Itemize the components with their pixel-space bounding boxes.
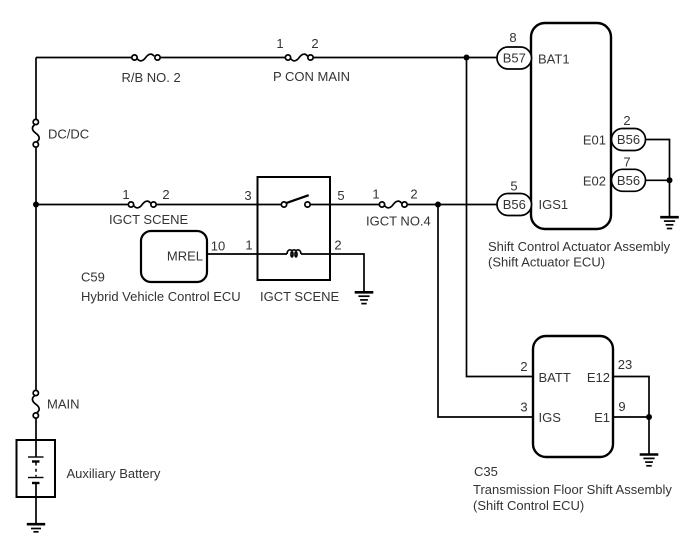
svg-text:Transmission Floor Shift Assem: Transmission Floor Shift Assembly (473, 482, 672, 497)
svg-text:2: 2 (520, 359, 527, 374)
svg-text:1: 1 (122, 187, 129, 202)
svg-text:1: 1 (372, 187, 379, 202)
svg-text:DC/DC: DC/DC (48, 127, 89, 142)
svg-text:5: 5 (510, 179, 517, 194)
svg-text:B56: B56 (503, 197, 526, 212)
svg-text:C35: C35 (474, 464, 498, 479)
svg-text:B56: B56 (617, 173, 640, 188)
svg-text:IGCT NO.4: IGCT NO.4 (366, 214, 431, 229)
svg-text:MREL: MREL (167, 249, 203, 264)
svg-text:2: 2 (311, 36, 318, 51)
svg-text:B57: B57 (503, 51, 526, 66)
svg-text:E12: E12 (587, 370, 610, 385)
svg-text:E1: E1 (594, 410, 610, 425)
svg-text:Auxiliary Battery: Auxiliary Battery (67, 466, 161, 481)
svg-text:B56: B56 (617, 132, 640, 147)
svg-text:7: 7 (623, 155, 630, 170)
svg-text:8: 8 (509, 30, 516, 45)
svg-text:3: 3 (520, 400, 527, 415)
svg-text:E02: E02 (583, 173, 606, 188)
svg-text:23: 23 (618, 357, 632, 372)
svg-text:IGS: IGS (539, 410, 562, 425)
svg-text:IGCT SCENE: IGCT SCENE (109, 212, 189, 227)
svg-text:BATT: BATT (539, 370, 571, 385)
svg-text:2: 2 (410, 187, 417, 202)
svg-text:IGCT SCENE: IGCT SCENE (260, 289, 340, 304)
svg-text:9: 9 (618, 399, 625, 414)
svg-text:P CON MAIN: P CON MAIN (273, 69, 350, 84)
svg-text:2: 2 (334, 238, 341, 253)
svg-text:1: 1 (276, 36, 283, 51)
svg-text:BAT1: BAT1 (538, 52, 570, 67)
svg-text:5: 5 (337, 188, 344, 203)
svg-text:2: 2 (623, 113, 630, 128)
svg-text:IGS1: IGS1 (539, 197, 569, 212)
svg-text:(Shift Control ECU): (Shift Control ECU) (473, 498, 584, 513)
svg-text:2: 2 (162, 187, 169, 202)
svg-text:3: 3 (244, 188, 251, 203)
svg-text:R/B NO. 2: R/B NO. 2 (122, 70, 181, 85)
svg-text:Shift Control Actuator Assembl: Shift Control Actuator Assembly (488, 239, 671, 254)
svg-text:10: 10 (211, 239, 225, 254)
svg-text:Hybrid Vehicle Control ECU: Hybrid Vehicle Control ECU (81, 289, 241, 304)
svg-text:E01: E01 (583, 133, 606, 148)
svg-text:1: 1 (245, 238, 252, 253)
svg-text:(Shift Actuator ECU): (Shift Actuator ECU) (488, 255, 605, 270)
svg-text:C59: C59 (81, 270, 105, 285)
svg-text:MAIN: MAIN (47, 397, 80, 412)
